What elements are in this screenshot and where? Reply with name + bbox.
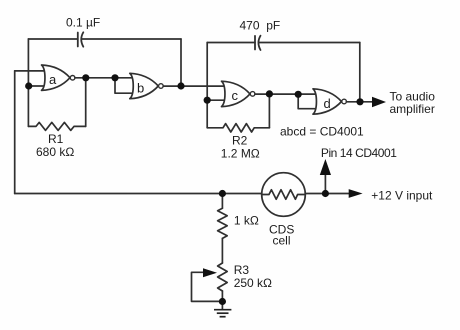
wire: R3 wiper bracket to bottom (192, 272, 223, 301)
wire: between 1k and R3 (221, 238, 223, 263)
gate d bubble (342, 99, 347, 104)
node: gate b tied inputs (111, 74, 118, 81)
node: gate d output / 470pF (356, 98, 363, 105)
svg-text:abcd = CD4001: abcd = CD4001 (280, 125, 364, 139)
op-amp gate c (NOR) (222, 81, 251, 106)
op-amp gate b (NOR) (130, 73, 159, 98)
svg-text:c: c (232, 88, 239, 103)
svg-text:b: b (137, 80, 144, 95)
svg-text:470 pF: 470 pF (240, 19, 281, 33)
wire: vertical from 0.1uF right down to gate b output node (180, 39, 182, 86)
svg-text:+12 V input: +12 V input (371, 188, 433, 202)
wire: R3 bottom to ground node (221, 291, 223, 302)
svg-text:R2: R2 (232, 134, 248, 148)
svg-text:Pin 14 CD4001: Pin 14 CD4001 (321, 146, 397, 160)
wire: gate d output to audio arrow (346, 101, 372, 103)
wire: rail from CDS cell to +12V node (305, 193, 350, 195)
arrowheads (203, 97, 386, 277)
wire: left vertical from gate a top input down to bottom rail (14, 71, 16, 194)
wire: bottom control rail (15, 193, 262, 195)
node: gate a output (82, 74, 89, 81)
wire: divider tap down to 1k resistor (221, 194, 223, 209)
wire: gate a output to gate b input (75, 77, 135, 79)
svg-text:1 kΩ: 1 kΩ (234, 214, 259, 228)
potentiometer R3 250k zigzag (218, 263, 228, 291)
wire: gate c output to gate d input (255, 93, 318, 95)
gate a bubble (70, 76, 75, 81)
capacitor 0.1 uF (78, 32, 84, 46)
node: rail divider tap (219, 190, 226, 197)
wire: vertical from 470pF left down through node to R2 left (206, 43, 208, 128)
wire: 470pF top wire right segment (259, 42, 360, 44)
op-amp gate a (NOR) (42, 65, 71, 90)
svg-text:amplifier: amplifier (390, 102, 435, 116)
wire: gate b tied-input bracket (115, 78, 135, 93)
svg-text:0.1 µF: 0.1 µF (66, 16, 100, 30)
arrow: R3 wiper (203, 268, 217, 277)
op-amp gate d (NOR) (313, 89, 342, 114)
arrow: +12 V input (349, 189, 363, 198)
wire: gate a top input from left vertical (15, 70, 47, 72)
arrow: to audio amplifier (372, 97, 386, 107)
wire: R1 right stub up to gate a output node (85, 78, 87, 127)
wire: gate a bottom input (28, 85, 46, 87)
node: cap/R1 at gate a bottom input (25, 82, 32, 89)
wire: gate c bottom input (207, 99, 226, 101)
wire: 0.1uF top wire right segment (82, 38, 181, 40)
wire: ground stub (221, 302, 223, 310)
svg-text:250 kΩ: 250 kΩ (234, 276, 272, 290)
resistor R2 1.2M zigzag (207, 124, 269, 132)
node: 470pF / R2 at gate c bottom input (204, 97, 211, 104)
photoresistor CDS cell (262, 173, 306, 217)
wire: gate d tied-input bracket (298, 94, 318, 108)
svg-text:680 kΩ: 680 kΩ (36, 145, 74, 159)
node: ground node at R3 bottom (219, 298, 226, 305)
arrow: up to Pin 14 (320, 159, 331, 175)
ground symbol bars (214, 310, 231, 317)
svg-text:R1: R1 (48, 132, 64, 146)
wire: R2 right stub up to gate c output node (268, 94, 270, 128)
resistor R1 680k zigzag (28, 122, 85, 130)
wire: 470pF top wire left segment (207, 42, 255, 44)
wire: gate b output to gate c top input (163, 85, 226, 87)
node: gate b output / 0.1uF (177, 82, 184, 89)
node: rail +12V / pin14 (322, 190, 329, 197)
gate c bubble (250, 92, 255, 97)
svg-text:1.2 MΩ: 1.2 MΩ (221, 147, 260, 161)
svg-text:cell: cell (273, 234, 291, 248)
wire: 0.1uF top wire left segment (28, 38, 77, 40)
wire: vertical from 470pF right down to gate d output node (359, 43, 361, 102)
svg-text:R3: R3 (234, 263, 250, 277)
wire: vertical from 0.1uF left down through node to R1 left (27, 39, 29, 126)
wire: Pin 14 arrow stem (324, 174, 326, 194)
svg-text:a: a (49, 72, 57, 87)
node: gate d tied inputs (295, 91, 302, 98)
resistor 1 kOhm zigzag (218, 208, 228, 238)
node: gate c output (266, 90, 273, 97)
capacitor 470 pF (255, 36, 261, 50)
gate b bubble (159, 84, 164, 89)
svg-text:d: d (324, 96, 331, 111)
